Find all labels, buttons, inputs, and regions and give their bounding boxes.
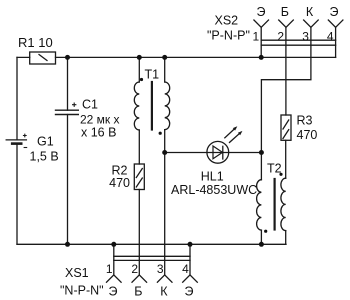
svg-text:R1 10: R1 10 [18,35,53,50]
svg-text:C1: C1 [82,98,98,112]
svg-text:T1: T1 [145,68,160,82]
svg-text:"P-N-P": "P-N-P" [207,29,250,43]
svg-text:3: 3 [157,262,164,276]
svg-text:2: 2 [277,29,284,43]
svg-text:470: 470 [109,176,130,190]
svg-text:470: 470 [297,128,318,142]
svg-text:T2: T2 [267,162,282,176]
svg-text:Б: Б [134,285,142,299]
svg-text:1: 1 [253,29,260,43]
svg-text:К: К [306,5,314,19]
svg-text:HL1: HL1 [201,170,224,184]
svg-text:1: 1 [106,262,113,276]
svg-text:XS2: XS2 [215,14,239,28]
svg-text:3: 3 [302,29,309,43]
svg-text:Э: Э [330,5,339,19]
svg-text:R3: R3 [297,114,313,128]
svg-text:Э: Э [109,285,118,299]
svg-text:4: 4 [327,29,334,43]
svg-text:2: 2 [131,262,138,276]
svg-text:4: 4 [182,262,189,276]
svg-text:Б: Б [281,5,289,19]
svg-text:G1: G1 [37,135,54,149]
svg-text:XS1: XS1 [65,266,89,280]
svg-text:ARL-4853UWC: ARL-4853UWC [171,183,257,197]
svg-text:К: К [160,285,168,299]
svg-text:х 16 В: х 16 В [81,126,116,140]
svg-text:"N-P-N": "N-P-N" [60,284,104,298]
svg-text:Э: Э [185,285,194,299]
svg-text:Э: Э [257,5,266,19]
svg-text:1,5 В: 1,5 В [30,150,59,164]
